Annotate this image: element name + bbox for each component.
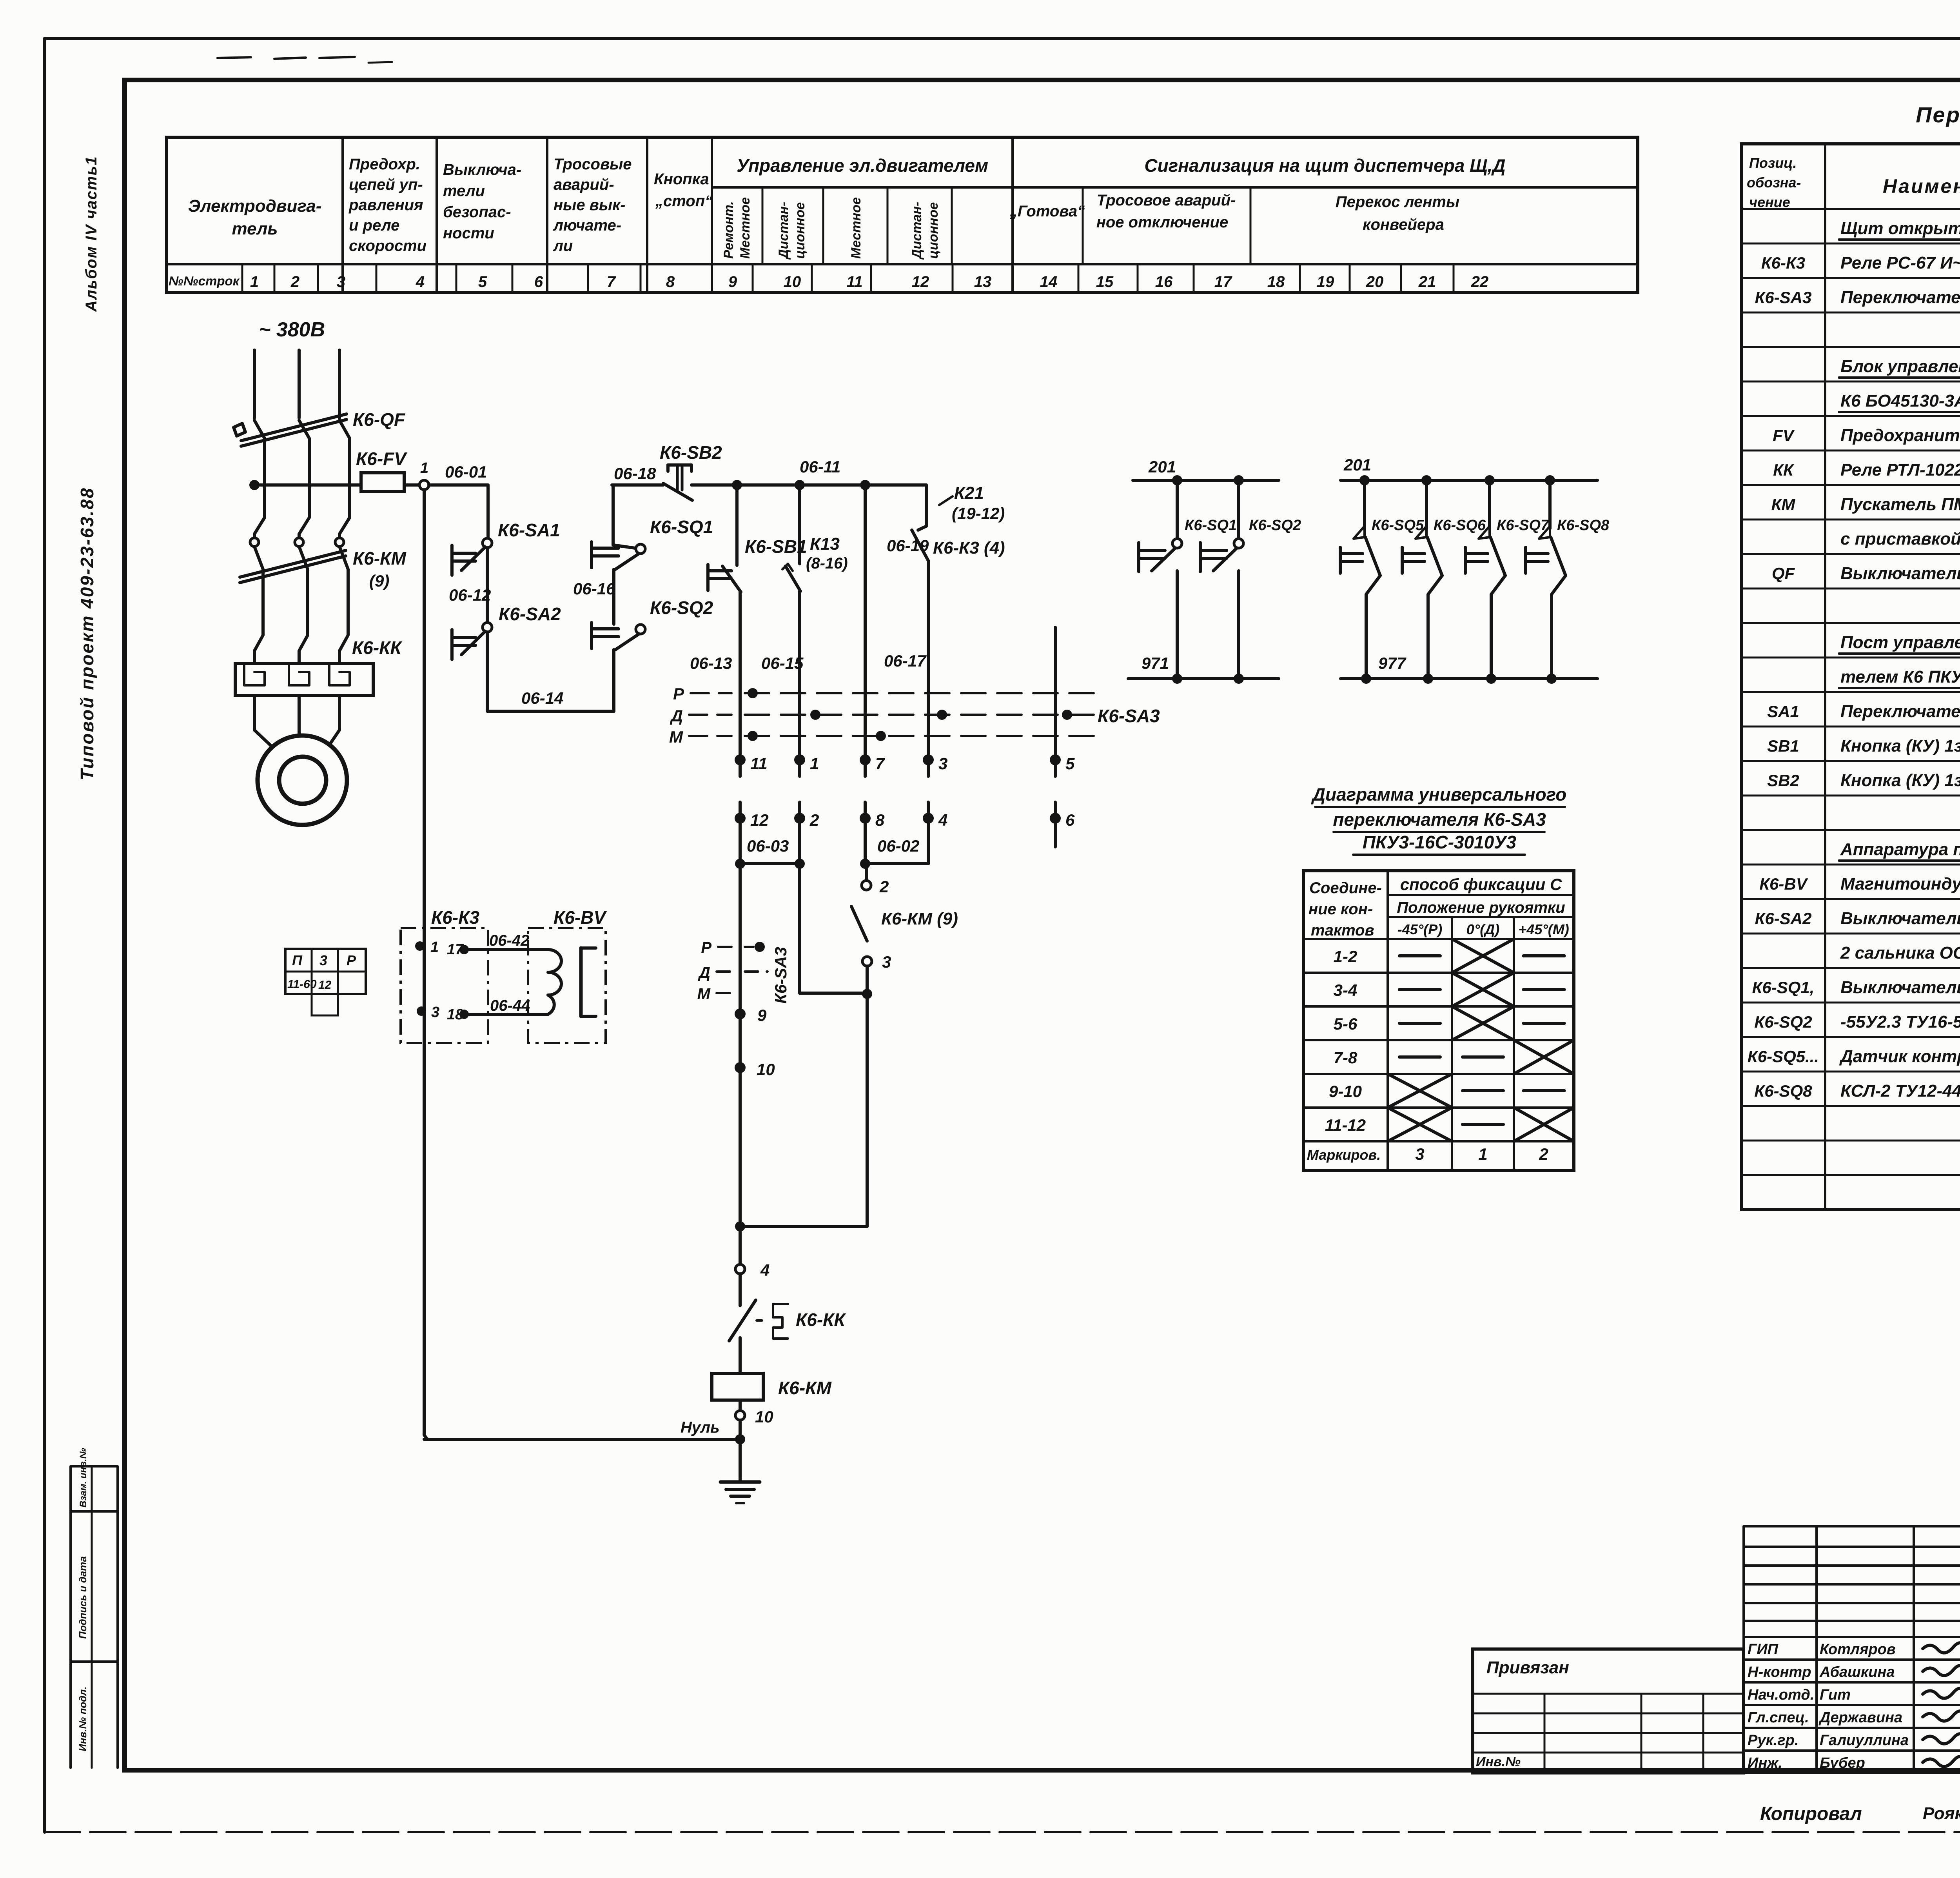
svg-text:6: 6 bbox=[534, 273, 543, 291]
svg-text:Сигнализация на щит диспетч: Сигнализация на щит диспетчера Щ,Д bbox=[1144, 155, 1505, 176]
K6-SA2 static contact bbox=[450, 630, 454, 659]
svg-text:Электродвига-: Электродвига- bbox=[188, 196, 322, 216]
svg-text:ГИП: ГИП bbox=[1748, 1641, 1779, 1658]
wire junction to terminal 4 bbox=[739, 1226, 742, 1265]
svg-text:13: 13 bbox=[974, 273, 992, 291]
left rail from node 1 bbox=[424, 490, 427, 1439]
wire node1 to SA1 corner 06-01 bbox=[429, 483, 488, 487]
title block signature rows bbox=[1744, 1658, 1960, 1661]
svg-text:скорости: скорости bbox=[349, 237, 426, 254]
svg-text:Нач.отд.: Нач.отд. bbox=[1748, 1687, 1814, 1703]
svg-text:15: 15 bbox=[1096, 273, 1114, 291]
svg-text:Выключатель пакетный ПВ3-10У25: Выключатель пакетный ПВ3-10У256Б bbox=[1840, 909, 1960, 928]
svg-text:К6-КК: К6-КК bbox=[352, 638, 402, 658]
wire KK to KM coil bbox=[739, 1338, 742, 1373]
BV coil bbox=[548, 950, 561, 1014]
svg-text:~ 380В: ~ 380В bbox=[259, 318, 325, 341]
svg-text:21: 21 bbox=[1418, 273, 1436, 291]
belt sway switch К6-SQ5 bbox=[1359, 475, 1370, 485]
svg-text:Диаграмма универсального: Диаграмма универсального bbox=[1311, 784, 1566, 805]
svg-text:2: 2 bbox=[1539, 1145, 1548, 1163]
svg-text:Галиуллина: Галиуллина bbox=[1820, 1732, 1909, 1749]
svg-text:Котляров: Котляров bbox=[1820, 1641, 1896, 1658]
svg-text:7: 7 bbox=[875, 754, 885, 773]
svg-text:4: 4 bbox=[760, 1261, 769, 1279]
svg-text:К6-К3: К6-К3 bbox=[431, 907, 479, 928]
svg-text:06-16: 06-16 bbox=[573, 579, 615, 598]
svg-text:5: 5 bbox=[1065, 754, 1075, 773]
svg-text:Кнопка: Кнопка bbox=[654, 171, 709, 188]
svg-text:К6-SА2: К6-SА2 bbox=[1755, 909, 1812, 928]
stop button K6-SB2 contact blade bbox=[663, 483, 692, 500]
wire to KK contact bbox=[739, 1274, 742, 1306]
svg-text:06-14: 06-14 bbox=[521, 689, 563, 707]
svg-text:Ремонт.: Ремонт. bbox=[721, 201, 736, 259]
svg-text:19: 19 bbox=[1317, 273, 1334, 291]
junction dots on 06-11 bbox=[732, 480, 742, 490]
svg-text:(19-12): (19-12) bbox=[952, 504, 1005, 523]
BV core bracket bbox=[579, 948, 583, 1016]
svg-text:Маркиров.: Маркиров. bbox=[1307, 1147, 1381, 1163]
svg-text:Пост управления К6-ПУ электрод: Пост управления К6-ПУ электродвига- bbox=[1840, 633, 1960, 652]
svg-text:Соедине-: Соедине- bbox=[1309, 879, 1382, 897]
svg-text:06-17: 06-17 bbox=[884, 652, 927, 670]
K3 terminal 1 bbox=[415, 941, 425, 951]
svg-text:06-02: 06-02 bbox=[877, 837, 919, 855]
svg-text:Реле РС-67 И~220В комплект дат: Реле РС-67 И~220В комплект датчик ДМ-2 bbox=[1840, 253, 1960, 272]
svg-text:06-15: 06-15 bbox=[761, 654, 804, 672]
svg-text:1: 1 bbox=[1478, 1145, 1487, 1163]
svg-text:SВ2: SВ2 bbox=[1767, 771, 1799, 790]
svg-text:ности: ности bbox=[443, 225, 494, 242]
belt sway switch К6-SQ6 bbox=[1421, 475, 1432, 485]
svg-text:Местное: Местное bbox=[849, 197, 864, 259]
wire dropper to terminal 7 bbox=[864, 485, 867, 760]
privyazan block bbox=[1473, 1649, 1744, 1773]
svg-text:3: 3 bbox=[431, 1004, 439, 1021]
wire SA1 to SA2 bbox=[486, 548, 489, 623]
wires below lower terminals bbox=[739, 818, 742, 1226]
svg-text:QF: QF bbox=[1772, 564, 1795, 583]
svg-text:Подпись и дата: Подпись и дата bbox=[77, 1556, 89, 1639]
svg-text:К6-SА3: К6-SА3 bbox=[1755, 288, 1812, 307]
element table header line bbox=[1742, 208, 1960, 210]
svg-text:К6-КМ (9): К6-КМ (9) bbox=[881, 909, 958, 928]
svg-text:Щит открытый 1Щ: Щит открытый 1Щ bbox=[1840, 219, 1960, 238]
thermal relay K6-KK block bbox=[235, 663, 373, 696]
element table frame bbox=[1742, 144, 1960, 1210]
svg-text:12: 12 bbox=[318, 979, 332, 992]
circuit breaker K6-QF blades bbox=[241, 414, 347, 441]
element table column lines bbox=[1824, 144, 1826, 1210]
svg-text:КМ: КМ bbox=[1771, 495, 1796, 514]
terminal row upper bbox=[735, 754, 746, 765]
svg-text:06-19: 06-19 bbox=[887, 536, 929, 555]
svg-text:Р: Р bbox=[701, 939, 711, 956]
svg-text:К6-SА3: К6-SА3 bbox=[771, 947, 790, 1004]
svg-text:9-10: 9-10 bbox=[1329, 1082, 1362, 1101]
svg-text:3: 3 bbox=[319, 952, 327, 968]
wire SB2 to bus junction bbox=[691, 483, 926, 487]
svg-text:FV: FV bbox=[1773, 426, 1795, 445]
svg-text:1: 1 bbox=[430, 939, 439, 955]
wire 06-44 bbox=[464, 1013, 548, 1016]
svg-text:ционное: ционное bbox=[793, 202, 808, 259]
svg-text:20: 20 bbox=[1366, 273, 1384, 291]
fuse K6-FV bbox=[361, 473, 404, 491]
limit switch K6-SQ2 panel bbox=[1237, 480, 1240, 539]
link 06-02 bbox=[865, 862, 928, 865]
svg-text:К6-SQ1,: К6-SQ1, bbox=[1752, 978, 1815, 997]
legend sub-column lines signalizacia bbox=[1082, 187, 1084, 264]
svg-text:К6-SQ1: К6-SQ1 bbox=[650, 517, 713, 537]
svg-text:Пускатель ПМЛ210004Б И~220В: Пускатель ПМЛ210004Б И~220В bbox=[1840, 495, 1960, 514]
sensor box K6-BV bbox=[528, 928, 606, 1043]
svg-text:+45°(М): +45°(М) bbox=[1518, 921, 1569, 937]
svg-text:К6-SQ2: К6-SQ2 bbox=[1249, 517, 1301, 534]
outer border bottom bbox=[45, 1831, 1960, 1833]
svg-text:-55У2.3 ТУ16-526.486-81: -55У2.3 ТУ16-526.486-81 bbox=[1840, 1012, 1960, 1032]
svg-text:11-60: 11-60 bbox=[287, 978, 317, 991]
svg-text:чение: чение bbox=[1749, 194, 1790, 210]
svg-text:Р: Р bbox=[347, 952, 356, 968]
svg-text:КК: КК bbox=[1773, 461, 1795, 479]
svg-text:К6 БО45130-3А74ГУХЛ4Б: К6 БО45130-3А74ГУХЛ4Б bbox=[1840, 391, 1960, 410]
ground symbol bbox=[739, 1439, 742, 1480]
svg-text:КСЛ-2 ТУ12-44-441-75: КСЛ-2 ТУ12-44-441-75 bbox=[1840, 1081, 1960, 1101]
wire link to KM chain bbox=[740, 1225, 867, 1228]
svg-text:0°(Д): 0°(Д) bbox=[1466, 921, 1499, 937]
svg-text:16: 16 bbox=[1155, 273, 1173, 291]
svg-text:Местное: Местное bbox=[738, 197, 753, 259]
node 1 circle bbox=[419, 480, 429, 490]
wire fuse to node 1 bbox=[404, 483, 419, 487]
link 06-03 bbox=[740, 862, 800, 865]
contactor aux contact K6-KM(9) bbox=[851, 906, 867, 941]
svg-text:К6-SQ8: К6-SQ8 bbox=[1557, 517, 1610, 534]
svg-text:Магнитоиндуктивный датчик ДМ-2: Магнитоиндуктивный датчик ДМ-2 bbox=[1840, 874, 1960, 894]
svg-text:Привязан: Привязан bbox=[1486, 1658, 1569, 1677]
svg-text:К6-QF: К6-QF bbox=[353, 409, 406, 430]
wires down to net 971 bbox=[1176, 571, 1179, 679]
svg-text:12: 12 bbox=[912, 273, 929, 291]
svg-text:ные вык-: ные вык- bbox=[554, 196, 626, 214]
phase wires KM to KK bbox=[254, 547, 263, 663]
legend table column lines bbox=[341, 137, 344, 292]
dropper 5 line bbox=[1054, 627, 1057, 760]
svg-text:9: 9 bbox=[728, 273, 737, 291]
contactor coil K6-KM bbox=[712, 1373, 763, 1400]
svg-text:Выключатель АЕ2036-10У3 Iр25А: Выключатель АЕ2036-10У3 Iр25А bbox=[1840, 564, 1960, 583]
svg-text:7-8: 7-8 bbox=[1334, 1048, 1357, 1067]
diagram table column lines bbox=[1387, 871, 1389, 1170]
svg-text:Инв.№ подл.: Инв.№ подл. bbox=[77, 1686, 89, 1751]
svg-text:1: 1 bbox=[810, 754, 819, 773]
svg-text:Кнопка (КУ) 1з+1р , красн. „ст: Кнопка (КУ) 1з+1р , красн. „стоп“ bbox=[1840, 771, 1960, 790]
svg-text:Кнопка (КУ) 1з+1р , черн. „пус: Кнопка (КУ) 1з+1р , черн. „пуск“ bbox=[1840, 736, 1960, 756]
svg-text:201: 201 bbox=[1148, 458, 1176, 476]
svg-text:ПКУ3-16С-3010У3: ПКУ3-16С-3010У3 bbox=[1363, 832, 1517, 852]
svg-text:Гит: Гит bbox=[1820, 1687, 1851, 1703]
svg-text:К6-К3 (4): К6-К3 (4) bbox=[933, 538, 1005, 558]
svg-text:Альбом IV часть1: Альбом IV часть1 bbox=[83, 156, 100, 312]
svg-text:Предохранитель ППТ-10У3Б , 6А: Предохранитель ППТ-10У3Б , 6А bbox=[1840, 426, 1960, 445]
push button K6-SB1 bbox=[706, 565, 710, 590]
svg-text:Тросовое аварий-: Тросовое аварий- bbox=[1097, 192, 1236, 209]
svg-text:Д: Д bbox=[670, 707, 683, 725]
contactor K6-KM power blades bbox=[240, 550, 346, 577]
svg-text:Рук.гр.: Рук.гр. bbox=[1748, 1732, 1798, 1749]
svg-text:06-11: 06-11 bbox=[800, 458, 840, 476]
phase wires KK to motor bbox=[253, 696, 256, 730]
svg-text:(8-16): (8-16) bbox=[806, 555, 848, 572]
svg-text:ли: ли bbox=[553, 237, 573, 254]
svg-text:Блок управления электродвигат: Блок управления электродвигателем bbox=[1840, 357, 1960, 376]
junction dot 10 bbox=[735, 1062, 746, 1073]
wire SQ1 to SQ2 bbox=[612, 569, 615, 624]
svg-text:2: 2 bbox=[879, 877, 889, 896]
svg-text:К6-SQ8: К6-SQ8 bbox=[1754, 1082, 1812, 1101]
wire coil to null line bbox=[739, 1420, 742, 1439]
title block small grid bbox=[1744, 1525, 1960, 1527]
K6-SA1 static contact bbox=[450, 545, 454, 575]
svg-text:конвейера: конвейера bbox=[1363, 216, 1444, 233]
svg-text:4: 4 bbox=[416, 273, 425, 291]
svg-text:телем К6 ПКУ15-19.141-54У2: телем К6 ПКУ15-19.141-54У2 bbox=[1840, 667, 1960, 687]
svg-text:Позиц.: Позиц. bbox=[1749, 155, 1797, 171]
svg-text:22: 22 bbox=[1471, 273, 1489, 291]
wire KM aux down bbox=[866, 966, 869, 1226]
svg-text:способ фиксации С: способ фиксации С bbox=[1400, 875, 1562, 894]
svg-text:8: 8 bbox=[875, 811, 885, 829]
svg-text:К6-SQ7: К6-SQ7 bbox=[1497, 517, 1550, 534]
svg-text:К6-BV: К6-BV bbox=[1759, 875, 1808, 893]
svg-text:1: 1 bbox=[250, 273, 259, 291]
K6-SA2 blade bbox=[461, 631, 485, 655]
wire column2 joins M row bbox=[800, 992, 862, 995]
svg-text:Типовой проект 409-23-63: Типовой проект 409-23-63.88 bbox=[77, 487, 97, 780]
svg-text:Наименование: Наименование bbox=[1883, 175, 1960, 197]
svg-text:977: 977 bbox=[1378, 654, 1406, 672]
belt sway switch К6-SQ8 bbox=[1545, 475, 1555, 485]
legend sub-column lines upravlenie bbox=[762, 187, 764, 264]
svg-text:К6-КК: К6-КК bbox=[796, 1310, 846, 1330]
svg-text:К6-SQ5: К6-SQ5 bbox=[1372, 517, 1424, 534]
svg-text:К6-КМ: К6-КМ bbox=[778, 1378, 832, 1398]
signatures scribbles bbox=[1923, 1643, 1960, 1653]
svg-text:Переключатель ПКУ3-16СУ3, схем: Переключатель ПКУ3-16СУ3, схема 3010 bbox=[1840, 288, 1960, 307]
svg-text:Тросовые: Тросовые bbox=[554, 156, 632, 173]
svg-text:Бубер: Бубер bbox=[1820, 1755, 1865, 1771]
svg-text:К6-SА1: К6-SА1 bbox=[498, 520, 560, 540]
svg-text:3-4: 3-4 bbox=[1334, 981, 1357, 999]
K6-SA1 terminal circle bbox=[483, 538, 492, 548]
branch 06-18 dropper bbox=[613, 485, 635, 548]
svg-text:3: 3 bbox=[337, 273, 345, 291]
svg-text:17: 17 bbox=[1214, 273, 1232, 291]
wire SQ2 down joins 06-14 bbox=[612, 650, 615, 711]
thermal contact K6-KK bbox=[729, 1300, 756, 1341]
position mini table bbox=[285, 949, 366, 994]
svg-text:ние кон-: ние кон- bbox=[1308, 901, 1373, 918]
relay box K6-K3 bbox=[401, 928, 488, 1043]
svg-text:Дистан-: Дистан- bbox=[909, 202, 924, 260]
left stamp column bbox=[69, 1466, 72, 1768]
svg-text:2: 2 bbox=[809, 811, 819, 829]
wire 06-42 bbox=[464, 948, 548, 951]
svg-text:Д: Д bbox=[698, 964, 710, 981]
svg-text:06-03: 06-03 bbox=[747, 837, 789, 855]
svg-text:Управление эл.двигателем: Управление эл.двигателем bbox=[737, 155, 988, 176]
svg-text:7: 7 bbox=[607, 273, 616, 291]
svg-text:Реле РТЛ-102204 Iн.э. 22А: Реле РТЛ-102204 Iн.э. 22А bbox=[1840, 460, 1960, 479]
svg-text:Выключа-: Выключа- bbox=[443, 161, 521, 178]
svg-text:К6-SQ2: К6-SQ2 bbox=[1754, 1013, 1812, 1032]
svg-text:„стоп“: „стоп“ bbox=[655, 193, 713, 210]
legend table header/number separator bbox=[167, 263, 1638, 265]
svg-text:11: 11 bbox=[846, 273, 863, 291]
svg-text:безопас-: безопас- bbox=[443, 203, 511, 221]
svg-text:06-01: 06-01 bbox=[445, 463, 487, 481]
svg-text:К6-SА2: К6-SА2 bbox=[499, 604, 561, 624]
svg-text:Р: Р bbox=[673, 685, 684, 703]
wire K13 dropper bbox=[798, 485, 801, 564]
svg-text:06-12: 06-12 bbox=[449, 586, 491, 604]
K6-SA2 terminal circle bbox=[483, 623, 492, 632]
legend number row ticks bbox=[241, 264, 243, 292]
svg-text:с приставкой ПКЛ2004: с приставкой ПКЛ2004 bbox=[1840, 529, 1960, 549]
legend table band line bbox=[712, 186, 1638, 189]
svg-text:К6-SВ2: К6-SВ2 bbox=[660, 442, 722, 463]
svg-text:К6-К3: К6-К3 bbox=[1761, 254, 1805, 272]
K3 terminal 3 bbox=[417, 1006, 426, 1016]
svg-text:Гл.спец.: Гл.спец. bbox=[1748, 1709, 1809, 1726]
svg-text:аварий-: аварий- bbox=[554, 176, 614, 193]
null line bbox=[424, 1438, 740, 1441]
wire 06-18 corner to SB2 bbox=[612, 483, 663, 487]
svg-text:2: 2 bbox=[290, 273, 299, 291]
svg-text:3: 3 bbox=[882, 953, 891, 971]
svg-text:К6-SQ1: К6-SQ1 bbox=[1185, 517, 1237, 534]
svg-text:лючате-: лючате- bbox=[553, 217, 621, 234]
svg-text:тели: тели bbox=[443, 182, 485, 200]
circuit breaker K6-QF handle bbox=[234, 423, 245, 436]
svg-text:равления: равления bbox=[348, 196, 423, 214]
svg-text:ное отключение: ное отключение bbox=[1096, 214, 1229, 231]
svg-text:06-44: 06-44 bbox=[490, 997, 530, 1014]
svg-text:Положение рукоятки: Положение рукоятки bbox=[1397, 899, 1565, 916]
svg-text:201: 201 bbox=[1343, 456, 1371, 474]
wire SB1 to terminal 11 bbox=[739, 592, 742, 760]
svg-text:5-6: 5-6 bbox=[1334, 1015, 1357, 1033]
branch down to K6-SA1 bbox=[486, 485, 490, 539]
svg-text:К6-SQ6: К6-SQ6 bbox=[1434, 517, 1486, 534]
svg-text:2 сальника ОСТ16.0.526.001-7: 2 сальника ОСТ16.0.526.001-77 bbox=[1840, 943, 1960, 963]
svg-text:Инж.: Инж. bbox=[1748, 1755, 1782, 1771]
terminal circle 10 bbox=[739, 1400, 742, 1411]
junction dot 9 bbox=[735, 1008, 746, 1019]
svg-text:К6-BV: К6-BV bbox=[554, 907, 607, 928]
diagram table frame bbox=[1303, 871, 1574, 1170]
svg-text:Перечень элементов: Перечень элементов bbox=[1916, 102, 1960, 127]
svg-text:тель: тель bbox=[232, 219, 278, 238]
svg-text:К6-SА3: К6-SА3 bbox=[1098, 706, 1160, 726]
svg-text:Абашкина: Абашкина bbox=[1819, 1664, 1895, 1680]
phase wires QF to KM bbox=[254, 420, 265, 538]
svg-text:К6-FV: К6-FV bbox=[356, 449, 407, 469]
wire K13 to terminal 1 bbox=[798, 591, 801, 760]
svg-text:Перекос ленты: Перекос ленты bbox=[1336, 193, 1459, 211]
svg-text:8: 8 bbox=[666, 273, 675, 291]
diagram table row lines bbox=[1388, 894, 1574, 896]
svg-text:Выключатель путевой ВП16Г23Б25: Выключатель путевой ВП16Г23Б251- bbox=[1840, 978, 1960, 997]
svg-text:обозна-: обозна- bbox=[1747, 174, 1801, 191]
svg-text:10: 10 bbox=[755, 1408, 773, 1426]
svg-text:Взам. инв.№: Взам. инв.№ bbox=[78, 1448, 89, 1507]
contactor K6-KM power contacts circles bbox=[250, 538, 259, 547]
svg-text:Предохр.: Предохр. bbox=[349, 156, 420, 173]
svg-text:Н-контр: Н-контр bbox=[1748, 1664, 1811, 1680]
svg-text:К6-SQ5...: К6-SQ5... bbox=[1748, 1047, 1819, 1066]
svg-text:06-18: 06-18 bbox=[614, 464, 656, 483]
outer border left bbox=[43, 38, 46, 1832]
motor M circles bbox=[258, 736, 347, 825]
svg-text:06-13: 06-13 bbox=[690, 654, 732, 672]
svg-text:9: 9 bbox=[757, 1006, 767, 1024]
svg-text:SА1: SА1 bbox=[1767, 702, 1799, 721]
svg-text:К6-SВ1: К6-SВ1 bbox=[745, 536, 807, 557]
junction dot phase1 fuse tap bbox=[249, 480, 260, 490]
limit switch K6-SQ1 panel bbox=[1176, 480, 1179, 539]
svg-text:К6-КМ: К6-КМ bbox=[353, 548, 407, 568]
outer border top bbox=[45, 37, 1960, 40]
wire 06-11 corner down bbox=[925, 485, 928, 526]
terminal row lower bbox=[739, 802, 742, 818]
svg-text:12: 12 bbox=[750, 811, 769, 829]
relay contact K6-K3(4) bbox=[912, 530, 928, 561]
svg-text:4: 4 bbox=[938, 811, 947, 829]
svg-text:Рояк: Рояк bbox=[1923, 1804, 1960, 1823]
wire to fuse bbox=[260, 483, 361, 487]
svg-text:11: 11 bbox=[750, 754, 768, 773]
svg-text:18: 18 bbox=[1267, 273, 1285, 291]
svg-text:ционное: ционное bbox=[926, 202, 941, 259]
svg-text:11-12: 11-12 bbox=[1325, 1116, 1366, 1134]
svg-text:3: 3 bbox=[1415, 1145, 1424, 1163]
svg-text:П: П bbox=[292, 952, 303, 968]
phase wires from supply bbox=[253, 350, 256, 418]
svg-text:Державина: Державина bbox=[1818, 1709, 1902, 1726]
scan noise dashes top-left bbox=[218, 57, 251, 58]
terminal circle 3 bbox=[862, 957, 872, 966]
svg-text:цепей уп-: цепей уп- bbox=[349, 176, 423, 193]
svg-text:К21: К21 bbox=[954, 483, 984, 503]
svg-text:К6-SQ2: К6-SQ2 bbox=[650, 598, 713, 618]
svg-text:Копировал: Копировал bbox=[1760, 1804, 1862, 1824]
svg-text:1: 1 bbox=[420, 460, 428, 476]
svg-text:1-2: 1-2 bbox=[1334, 947, 1357, 966]
svg-text:Переключатель (ПФ2) 1з+1р: Переключатель (ПФ2) 1з+1р bbox=[1840, 702, 1960, 721]
terminal circle 4 bbox=[735, 1264, 745, 1274]
svg-text:971: 971 bbox=[1142, 654, 1169, 672]
svg-text:-45°(Р): -45°(Р) bbox=[1397, 921, 1442, 937]
stop button K6-SB2 actuator bbox=[668, 463, 691, 467]
svg-text:10: 10 bbox=[784, 273, 801, 291]
svg-text:М: М bbox=[669, 728, 683, 746]
svg-text:„Готова“: „Готова“ bbox=[1009, 203, 1085, 220]
wire to terminal 2 bbox=[865, 864, 868, 881]
svg-text:К13: К13 bbox=[810, 534, 840, 554]
